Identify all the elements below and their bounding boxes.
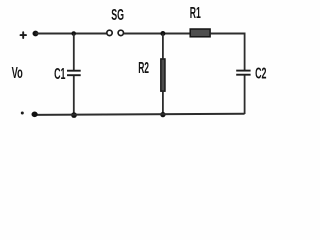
terminal - (negative input dot) (21, 112, 24, 115)
wire top-right: R1 to right branch corner, down to C2 (210, 33, 245, 35)
wire: C1 bottom lead (73, 76, 75, 115)
spark gap SG (107, 30, 124, 35)
svg-text:Vo: Vo (12, 65, 23, 82)
wire: right branch lower segment (244, 76, 246, 115)
resistor R2 (161, 59, 165, 91)
capacitor C2 (236, 71, 250, 75)
terminal + (positive input) (21, 32, 27, 38)
wire top: spark gap to R1 (124, 33, 190, 35)
svg-text:R2: R2 (138, 59, 149, 76)
wire: right branch upper segment (244, 33, 246, 71)
resistor R1 (190, 29, 210, 37)
svg-text:R1: R1 (190, 5, 201, 22)
node top-left input (33, 31, 39, 37)
wire top: input node to spark gap (36, 33, 107, 35)
svg-text:C1: C1 (54, 66, 65, 83)
junction C1 top (71, 31, 76, 36)
wire: C1 top lead (73, 34, 75, 71)
capacitor C1 (67, 71, 81, 76)
node bottom-left input (31, 112, 37, 118)
wire bottom return (35, 114, 245, 115)
wire: R2 bottom lead (162, 92, 164, 115)
junction C1 bottom (71, 112, 77, 118)
junction R2 top (160, 31, 165, 36)
svg-text:C2: C2 (255, 65, 266, 82)
svg-text:SG: SG (111, 5, 124, 24)
wire: R2 top lead (162, 34, 164, 59)
junction R2 bottom (160, 112, 165, 117)
